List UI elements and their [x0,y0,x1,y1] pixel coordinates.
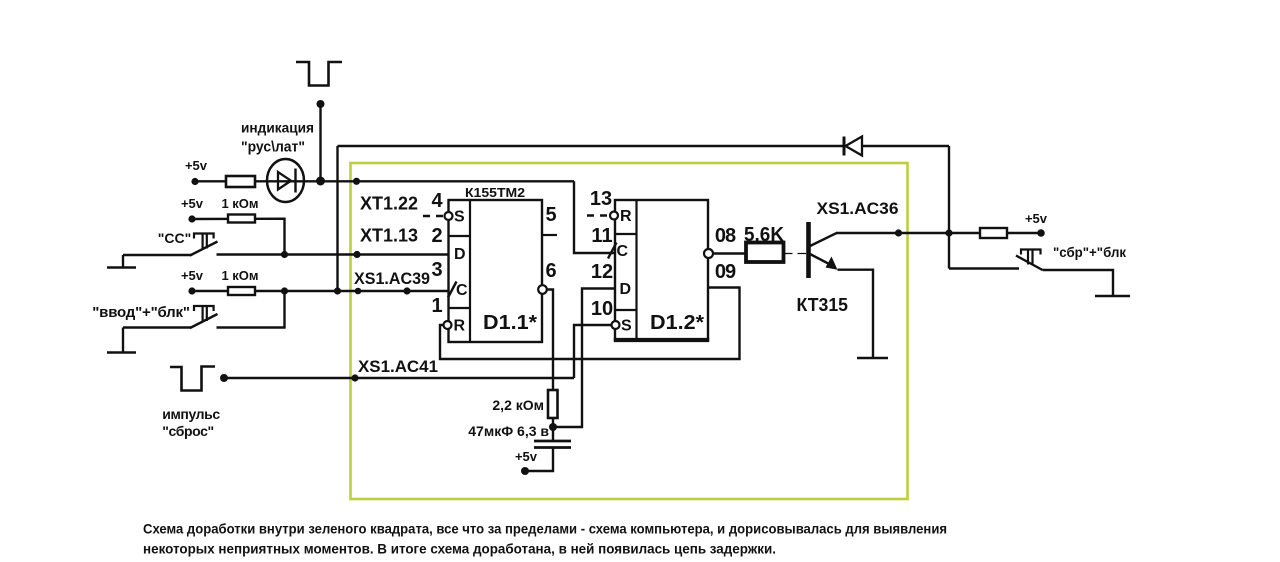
node: pulse terminal dot [317,100,325,108]
wire: D input of D1.2 from RC node [553,289,615,428]
switch CC blade [190,242,218,256]
wire: CC switch to D input of D1.1 [217,253,449,255]
diode VD triangle [846,137,863,156]
svg-text:XS1.AC36: XS1.AC36 [817,199,899,218]
svg-text:"рус\лат": "рус\лат" [241,139,305,156]
wire: resistor to +5v terminal [1007,232,1041,234]
svg-text:"сброс": "сброс" [162,423,213,439]
node: +5v terminal right [1037,229,1045,237]
svg-text:D: D [454,246,466,263]
svg-text:13: 13 [590,188,612,210]
svg-text:некоторых неприятных моментов.: некоторых неприятных моментов. В итоге с… [143,541,776,557]
wire: pin6 to RC chain [547,290,553,391]
IC D1.1 column tick S/D [449,235,471,237]
svg-text:+5v: +5v [181,196,204,211]
switch ввод plunger [194,306,214,311]
svg-text:XS1.AC39: XS1.AC39 [354,269,430,288]
node: junction feedback vertical [334,287,341,294]
svg-text:XS1.AC41: XS1.AC41 [358,357,438,376]
wire: LED net down to C of D1.2 [574,181,615,253]
IC D1.1 inner column line [469,200,471,342]
ground (сбр switch) bar [1095,295,1130,298]
node: boundary dot XS1.AC41 [351,374,358,381]
wire: collector net [836,232,980,234]
wire: сбр switch feed [949,267,1019,269]
node: boundary dot collector [895,229,902,236]
S input circle D1.2 [612,321,620,329]
diode VD (pointing left) cathode bar [843,137,846,156]
IC D1.1 column tick C/R [449,307,471,309]
transistor emitter diagonal with arrow [810,254,833,266]
svg-text:+5v: +5v [181,268,204,283]
IC D1.2 column tick D/S [615,309,637,311]
svg-text:5: 5 [545,204,556,226]
node: junction collector/diode vertical [945,229,952,236]
svg-text:XT1.13: XT1.13 [360,226,418,246]
pulse symbol top (negative pulse above LED wire) [296,62,342,86]
wire: node to cap [552,427,554,441]
switch CC plunger [194,234,214,239]
svg-text:4: 4 [431,190,443,212]
wire: pin8 to 5.6K [713,252,746,254]
ground (ввод switch) bar [107,351,136,354]
resistor 1 кОм (ввод) [228,287,255,295]
svg-text:2: 2 [431,225,442,247]
svg-text:47мкФ 6,3 в: 47мкФ 6,3 в [468,423,549,439]
svg-text:S: S [621,318,632,335]
wire: emitter to ground [838,270,874,358]
wire: diode to right vertical [862,145,949,147]
transistor KT315 base bar [806,222,811,278]
svg-text:+5v: +5v [185,158,208,173]
switch CC left wire [123,254,191,256]
R input circle D1.2 [610,212,618,220]
R input dashes D1.2 [587,214,609,216]
wire: pulse terminal down to LED net [319,104,321,181]
node: junction LED wire / pulse stem [316,177,325,186]
pin 5 stub [542,234,557,236]
svg-text:XT1.22: XT1.22 [360,194,418,214]
svg-text:09: 09 [715,261,736,283]
capacitor top plate [534,440,571,443]
wire: XS1.AC41 net [224,377,574,379]
/C letters D1.2 [608,243,617,259]
wire: resistor bottom to node [552,418,554,427]
svg-text:3: 3 [431,259,442,281]
LED diode triangle [278,172,291,190]
svg-text:S: S [454,209,465,226]
svg-text:импульс: импульс [162,406,220,422]
node: CC junction with resistor drop [281,251,288,258]
green modification boundary box [351,163,908,499]
svg-text:+5v: +5v [515,449,538,464]
svg-text:D1.1*: D1.1* [483,312,537,334]
transistor emitter arrowhead [826,257,838,270]
wire: сбр switch to ground [1043,270,1114,296]
node: RC junction [549,423,557,431]
svg-text:08: 08 [715,225,736,247]
wire: CC resistor feed [192,219,285,255]
svg-text:К155ТМ2: К155ТМ2 [465,185,525,200]
svg-text:1 кОм: 1 кОм [221,268,258,283]
IC D1.1 box [449,200,543,342]
wire: 5.6K to base (faint) [784,253,807,255]
resistor 5.6K thick box [746,243,784,263]
svg-text:D: D [620,281,632,298]
svg-text:"ввод"+"блк": "ввод"+"блк" [92,304,190,321]
svg-text:10: 10 [591,298,613,320]
resistor (LED series) [226,176,255,187]
svg-text:C: C [456,282,468,299]
wire: C net horizontal to D1.1 [255,290,449,292]
switch сбр blade [1016,256,1043,271]
ground (emitter) bar [857,357,888,360]
svg-text:1 кОм: 1 кОм [221,196,258,211]
wire: feedback top horizontal to diode [338,145,845,147]
S input circle D1.1 [445,212,453,220]
node: boundary dot LED net [353,178,360,185]
wire: R pin D1.1 to pin9 net [440,288,740,360]
svg-text:6: 6 [545,260,556,282]
node: сброс terminal dot [220,374,228,382]
pin 8 output circle D1.2 [704,249,713,258]
svg-text:"CC": "CC" [158,230,192,246]
resistor 1 кОм (CC) [228,215,255,223]
wire: right vertical down to collector net and switch [948,146,950,269]
resistor (+5v pullup) [980,228,1007,238]
node: +5v terminal cap [521,467,529,475]
node: junction ввод resistor [281,287,288,294]
/C letters D1.1 [448,282,457,298]
S input dashes D1.1 [423,215,445,217]
capacitor bottom plate [534,446,571,449]
svg-text:индикация: индикация [241,120,314,136]
ground (CC switch) bar [107,266,136,269]
svg-text:2,2 кОм: 2,2 кОм [492,397,544,413]
node: +5v terminal ввод branch [188,287,195,294]
svg-text:1: 1 [431,295,442,317]
svg-text:12: 12 [591,261,613,283]
pin 6 output circle D1.1 [538,285,547,294]
svg-text:D1.2*: D1.2* [650,312,704,334]
LED indicator "рус\лат" circle [267,159,304,202]
svg-text:Схема доработки внутри зеленог: Схема доработки внутри зеленого квадрата… [143,521,947,537]
IC D1.2 box [615,200,708,340]
node: dot on C net [403,287,410,294]
svg-text:11: 11 [591,225,612,247]
svg-text:R: R [620,208,632,225]
ground (ввод switch) stem [122,328,124,353]
wire: ввод switch up to C net [217,291,285,328]
node: boundary dot C net [355,288,362,295]
ground (CC switch) stem [122,255,124,267]
transistor collector diagonal [810,233,837,246]
svg-text:C: C [617,243,629,260]
switch ввод left wire [123,326,191,328]
svg-text:"сбр"+"блк: "сбр"+"блк [1053,244,1127,260]
svg-text:+5v: +5v [1025,211,1048,226]
IC D1.2 bottom thick edge [614,338,709,342]
svg-text:R: R [454,318,466,335]
IC D1.2 column tick R/C [615,233,637,235]
wire: ввод resistor feed [192,290,228,292]
R input circle D1.1 [444,321,452,329]
wire: XS1.AC41 up to S of D1.2 [574,325,611,378]
wire: cap to +5v terminal [525,448,553,472]
LED diode cathode bar [294,169,296,193]
switch ввод blade [190,314,218,328]
switch сбр plunger [1021,250,1041,255]
wire: feedback vertical from C-net up [336,146,338,291]
wire: LED net horizontal [195,180,574,182]
pulse symbol импульс сброс [170,367,215,391]
node: boundary dot D net [353,251,360,258]
resistor 2,2 кОм [548,390,558,418]
node: +5v terminal dot LED branch [191,178,198,185]
IC D1.2 inner column line [635,200,637,340]
svg-text:КТ315: КТ315 [797,295,849,315]
node: +5v terminal CC branch [188,215,195,222]
